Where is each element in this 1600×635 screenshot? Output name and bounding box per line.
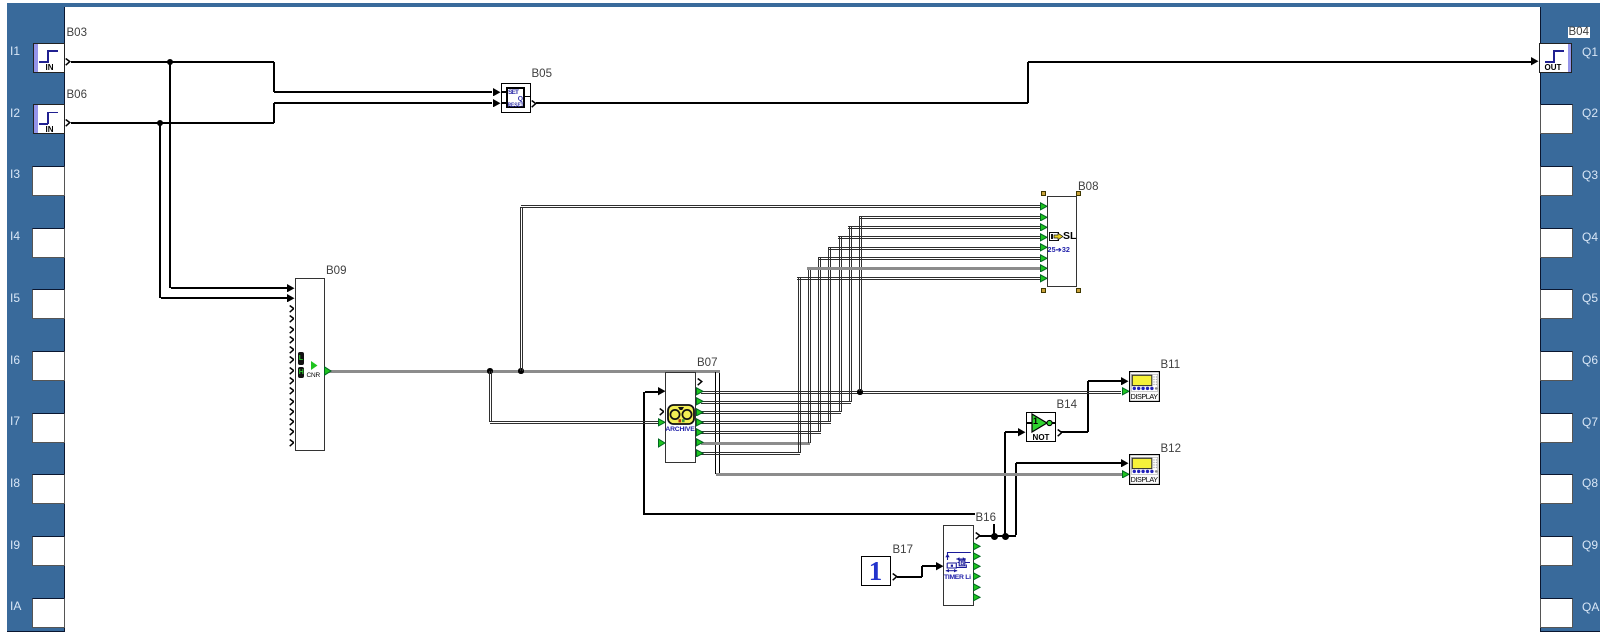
svg-text:RESET: RESET (508, 102, 525, 108)
svg-text:B: B (960, 561, 964, 567)
